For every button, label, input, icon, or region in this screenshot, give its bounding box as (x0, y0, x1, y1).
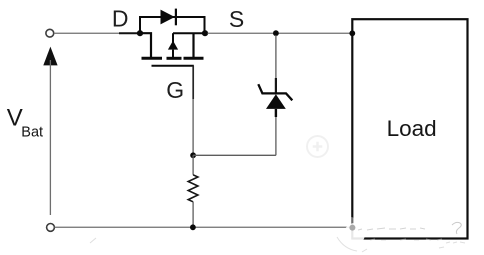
wire gate junction to zener (193, 154, 276, 156)
node gate junction (190, 152, 196, 158)
node at load box top connection (349, 30, 355, 36)
transistor Q1 body channel bar (167, 57, 182, 60)
wire zener anode down to gate wire (275, 117, 277, 155)
svg-text:D: D (112, 6, 129, 32)
node D (137, 30, 143, 36)
svg-text:S: S (229, 6, 244, 32)
terminal circle bottom-left (47, 224, 55, 232)
wire bottom rail (55, 226, 353, 228)
svg-text:Bat: Bat (21, 124, 43, 140)
transistor Q1 source stub (192, 33, 194, 57)
node S (202, 30, 208, 36)
watermark smudges bottom right (decorative) (90, 217, 465, 252)
node resistor bottom (190, 224, 196, 230)
load box (352, 19, 467, 238)
wire from S to load box (208, 32, 352, 34)
wire left rail (49, 60, 51, 215)
diode D1 anode triangle (161, 10, 175, 25)
node zener tap (273, 30, 279, 36)
transistor Q1 drain stub (141, 33, 151, 57)
watermark circle (decorative) (307, 136, 328, 157)
transistor Q1 source channel bar (184, 57, 204, 60)
terminal circle top-left (46, 29, 54, 37)
svg-text:Load: Load (387, 116, 437, 141)
transistor Q1 body arrow (172, 33, 174, 43)
wire top rail from terminal to node D (54, 32, 120, 34)
node at load box bottom connection (350, 225, 355, 230)
wire junction down to resistor (192, 155, 194, 175)
svg-text:G: G (166, 77, 184, 103)
wire gate down to junction (192, 66, 194, 99)
source V_Bat arrow (current direction) (43, 47, 57, 66)
resistor R1 (188, 175, 198, 202)
diode D1 cathode bar (175, 9, 177, 26)
transistor Q1 drain channel bar (142, 57, 163, 60)
zener diode Z1 anode lead (275, 109, 277, 117)
wire resistor to bottom rail (192, 202, 194, 228)
wire zener cathode lead (275, 35, 277, 79)
diode D1 body diode loop wire (140, 17, 205, 32)
zener diode Z1 cathode bar with bent tails (258, 84, 292, 100)
transistor Q1 source-side top wire (173, 32, 205, 34)
zener diode Z1 anode triangle (266, 94, 286, 109)
transistor Q1 gate bar (152, 65, 194, 67)
